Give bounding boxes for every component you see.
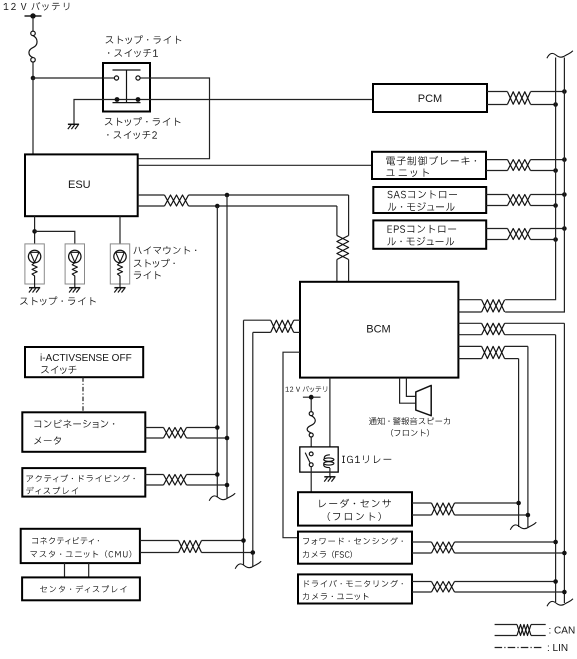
radar drop wire 2 (x518.6) [518,359,520,527]
SAS CAN pair wires [486,194,507,196]
fusible link (middle battery) [307,412,315,437]
twisted pair (radar) [432,503,455,515]
junction radar lower [526,513,531,518]
break squiggle below radar drops [510,522,536,529]
radar CAN pair wires [412,502,432,504]
label: stop light switch 2 [105,117,181,139]
junction FSC upper [553,540,558,545]
switch linkage top bar [113,69,141,71]
wire fuse to IG1 relay [310,437,312,452]
label: 12 V battery (top-left) [4,2,70,11]
break squiggle below display pair [209,493,235,500]
battery B+ terminal (middle) [303,395,321,400]
label: driver monitoring camera unit [303,580,403,600]
wire ESU to high mount stop lamp [119,216,121,244]
junction radar upper [516,501,521,506]
electric brake control unit box [372,152,486,179]
CMU drop wire 1 (x243.5) [243,320,245,565]
twisted pair (meter) [164,428,187,439]
junction meter lower [225,436,230,441]
wire to stop lamp 2 [35,231,75,244]
BCM CAN pair 1 wires [458,299,481,301]
label: radar sensor (front) [319,499,391,521]
speaker (notification/warning, front) [416,385,431,415]
label: EPS control module [387,225,456,245]
svg-text:: LIN: : LIN [547,643,568,654]
IG1 relay switch lever [305,453,310,464]
center display box [22,577,140,600]
ESU CAN pair lower wire [138,205,165,207]
junction driver monitoring upper [553,579,558,584]
wire from SW1 right contact [140,77,150,79]
twisted pair (SAS) [508,195,531,206]
svg-text:i-ACTIVSENSE OFF: i-ACTIVSENSE OFF [40,353,132,364]
junction display upper [215,472,220,477]
PCM box [373,84,487,112]
switch linkage bottom bar [113,102,141,104]
i-ACTIVSENSE OFF switch box [25,347,143,377]
wire ESU to stop lamps [34,216,36,244]
twisted pair (vertical, to BCM) [337,236,349,260]
junction brake upper to bus [562,157,567,162]
label: notification warning speaker (front) [369,417,450,436]
twisted pair (ESU CAN) [165,195,189,206]
wire SW2 to PCM [150,99,373,101]
radar drop wire 1 (x527.9) [527,346,529,528]
BCM left CAN pair wires [294,319,300,321]
BCM pair 2 to lower bus corners [505,322,565,324]
stop light switch box [103,63,150,112]
label: SAS control module [387,190,457,211]
wire fuse to node A [32,62,34,78]
BCM CAN pair 3 wires [458,345,481,347]
junction SAS upper to bus [562,192,567,197]
wire into SW1 left contact [103,77,114,79]
junction EPS lower to bus [553,237,558,242]
CMU drop wire 2 (x252.8) [252,332,254,566]
twisted pair (EPS) [508,229,531,240]
label: stop light switch 1 [106,35,182,57]
stop light switch 2 contacts (closed) [115,97,141,102]
label: i-ACTIVSENSE OFF switch [40,353,132,374]
ESU box [25,154,138,216]
IG1 relay box [300,447,338,472]
SAS control module box [373,187,486,213]
driver monitoring CAN pair wires [412,581,432,583]
label: IG1 relay [342,455,391,463]
connectivity master unit (CMU) box [21,529,140,563]
junction driver monitoring lower [562,590,567,595]
wire battery to fuse (middle) [310,400,312,412]
twisted pair (BCM pair 3) [482,346,505,358]
label: high mount stop light [134,246,197,279]
wire BCM to speaker terminal 2 [400,378,416,404]
twisted pair (brake unit) [508,160,531,171]
EPS control module box [373,220,486,248]
ground (IG1 relay) [324,477,335,482]
BCM box [300,282,458,378]
junction PCM upper to bus [562,89,567,94]
break squiggle top of bus [547,51,573,58]
vertical CAN pair ESU to BCM [348,195,350,236]
label: center display [40,585,127,593]
high mount stop lamp [110,244,129,293]
stop light switch 2 wire through [103,99,150,101]
wires CMU to center display [64,563,66,577]
twisted pair (FSC) [432,542,455,553]
twisted pair (BCM pair 2) [482,323,505,334]
junction PCM lower to bus [553,102,558,107]
vertical pair into BCM top [336,260,338,282]
junction on ESU CAN upper [225,193,230,198]
wire ESU to electric brake control unit [138,164,372,166]
wire BCM to speaker terminal 1 [406,378,415,397]
label: active driving display [26,474,135,494]
wire relay switch to radar sensor [310,467,312,493]
svg-text:PCM: PCM [418,93,442,105]
svg-text:: CAN: : CAN [549,626,576,637]
junction on ESU CAN lower [215,204,220,209]
display CAN pair wires [145,474,163,476]
wire node A to stop light switch [33,77,103,79]
BCM pair 3 to radar drop corners [505,345,528,347]
meter CAN pair wires [145,427,163,429]
stop lamp 1 [25,244,44,293]
wire SW2 to ground [74,100,103,125]
ground (stop light switch) [68,124,79,129]
radar sensor box [298,492,412,525]
BCM left pair corners [244,319,271,321]
left CAN drop wire 1 (x217) [216,206,218,498]
driver monitoring camera unit box [298,574,412,603]
switch linkage vertical [126,70,128,103]
stop light switch 1 contacts (open) [114,76,140,80]
wire battery to fuse [32,19,34,32]
label: 12 V battery (middle) [285,386,327,392]
BCM CAN pair 2 wires [458,322,481,324]
CAN bus upper right line [505,58,564,313]
label: stop light [20,297,96,306]
twisted pair (BCM pair 1) [482,300,505,312]
combination meter box [22,412,145,452]
twisted pair (CMU) [179,541,202,553]
junction CMU lower [251,550,256,555]
node A junction [31,76,36,81]
break squiggle bottom of bus [547,599,573,606]
active driving display box [22,468,145,497]
label: combination meter [34,420,114,445]
junction SAS lower to bus [553,203,558,208]
left CAN drop wire 2 (x227) [226,195,228,499]
twisted pair (driver monitoring) [432,582,455,593]
legend CAN twisted pair symbol [495,624,517,626]
junction display lower [225,483,230,488]
CAN bus lower left line [555,335,557,602]
junction FSC lower [562,551,567,556]
FSC CAN pair wires [412,541,432,543]
wire node A down to ESU [32,78,34,154]
wire coil to ground [329,468,331,476]
junction EPS upper to bus [562,226,567,231]
junction stop lamp feed [32,229,37,234]
IG1 relay switch contacts [309,452,313,467]
junction CMU upper [241,538,246,543]
wire BCM to FSC [283,352,300,538]
wire BCM to IG1 relay coil [329,378,331,455]
IG1 relay coil [324,455,334,468]
label: forward sensing camera (FSC) [303,537,403,558]
svg-text:BCM: BCM [366,323,390,335]
fusible link (top-left battery) [29,31,37,62]
label: connectivity master unit (CMU) [30,537,131,558]
battery B+ terminal (top-left) [25,13,42,18]
label: electric brake control unit [386,156,476,177]
twisted pair (BCM left) [271,320,294,332]
break squiggle below CMU drops [235,561,261,568]
twisted pair (PCM) [508,92,531,104]
PCM CAN pair wires [487,91,508,93]
forward sensing camera box [298,532,412,564]
twisted pair (display) [164,475,187,486]
junction meter upper [215,425,220,430]
CMU CAN pair wires [140,540,179,542]
legend LIN dash-dot line [495,647,542,649]
LIN wire switch to combination meter [82,377,84,412]
brake unit CAN pair wires [486,159,508,161]
CAN bus upper left line [505,58,555,300]
EPS CAN pair wires [486,228,507,230]
CAN bus lower right line [563,323,565,603]
svg-text:ESU: ESU [68,179,91,191]
stop lamp 2 [65,244,84,293]
ESU CAN pair upper wire [138,194,165,196]
wire SW1 to ESU right side [138,78,210,159]
junction brake lower to bus [553,168,558,173]
